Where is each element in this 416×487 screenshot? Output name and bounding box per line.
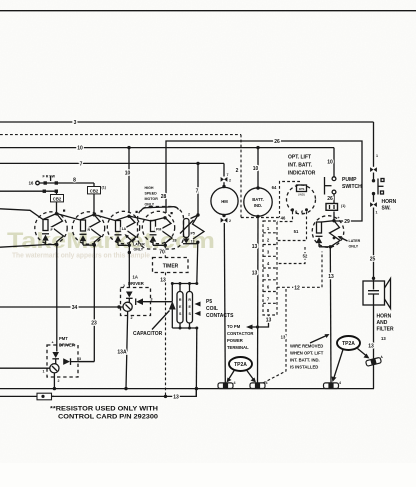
wire 13 res pack to bottom [195,328,198,396]
svg-text:CAPACITOR: CAPACITOR [133,331,163,337]
svg-text:PUMP: PUMP [342,177,357,183]
wire 8-13 ladder to batt ind wire with pointer [268,315,270,323]
svg-text:13: 13 [381,336,386,341]
svg-text:TERMINAL: TERMINAL [227,345,249,350]
wire 12 [277,252,322,288]
F R switch upper pole wire 8 [39,182,94,184]
svg-text:13: 13 [252,244,258,250]
svg-text:INT. BATT. IND.: INT. BATT. IND. [290,358,320,363]
svg-text:4: 4 [266,381,268,385]
svg-text:23: 23 [91,321,97,327]
svg-text:R: R [179,298,182,302]
contactor PM C4 [142,211,176,247]
svg-text:10: 10 [327,160,333,166]
horn connector upper [370,167,377,172]
svg-text:64: 64 [272,185,277,190]
res pack P5 coil contacts [171,282,199,330]
svg-text:2: 2 [229,179,231,183]
svg-text:26: 26 [274,139,280,145]
svg-text:R: R [188,298,191,302]
wire 13 removed (dashed) to lug [262,289,286,384]
svg-text:1: 1 [376,154,378,158]
pump switch [325,177,363,204]
svg-text:BATT.: BATT. [252,197,264,202]
svg-text:70: 70 [159,250,165,256]
svg-text:7: 7 [80,161,83,167]
svg-text:4: 4 [339,381,341,385]
svg-text:DRIVER: DRIVER [128,281,144,286]
svg-text:(IND): (IND) [298,193,305,197]
svg-text:WIRE REMOVED: WIRE REMOVED [290,344,323,349]
wire 10 bus [0,147,334,149]
svg-text:13: 13 [266,318,272,324]
svg-text:12: 12 [294,285,300,291]
svg-text:13: 13 [281,335,286,340]
wire 13 dashed from timer to bottom bus [165,273,167,397]
svg-text:PM: PM [156,228,161,232]
svg-text:7: 7 [196,189,199,195]
svg-text:INT. BATT.: INT. BATT. [288,163,313,169]
wire 25 [373,208,375,282]
terminal lug 3 [324,381,342,388]
wire 46 [277,212,293,222]
svg-text:2: 2 [123,284,125,288]
svg-text:TO PM: TO PM [227,324,241,329]
svg-text:CB2: CB2 [53,197,62,202]
timer TIMER [153,258,189,273]
svg-text:7: 7 [227,173,229,177]
pump switch feed wire 10 [333,148,335,177]
svg-text:10: 10 [77,146,83,152]
wire lug4 to bottom bus corner [373,365,375,389]
svg-text:+: + [52,341,54,345]
svg-text:13: 13 [160,278,166,284]
svg-text:28: 28 [173,239,177,243]
svg-text:F R SW: F R SW [43,175,56,179]
wire 26 loop [166,141,362,221]
dashed outline high speed motor group [138,207,184,250]
wire 13 horn to lug [373,305,375,359]
svg-text:10: 10 [125,171,131,177]
bottom bus lower with jog [0,389,196,397]
battery indicator BATT IND [244,146,272,383]
breaker CB2 right [93,183,95,215]
F R switch lower pole wire [0,190,57,192]
svg-text:25: 25 [370,257,376,263]
svg-text:13: 13 [328,274,334,280]
svg-text:**RESISTOR USED ONLY WITH: **RESISTOR USED ONLY WITH [50,406,158,413]
svg-text:+: + [338,216,340,220]
svg-text:TIMER: TIMER [163,264,179,270]
wire 70 from PM contactor to timer [164,245,166,257]
svg-text:POWER: POWER [227,338,243,343]
svg-text:P5: P5 [206,299,212,305]
svg-text:3: 3 [151,298,153,302]
wire 10 drop to circle C3 [128,148,130,213]
wire 13A emitter of 1A driver to bottom bus [126,316,128,389]
F R switch terminal 16 [36,181,40,185]
svg-text:13: 13 [173,395,179,401]
opt lift battery indicator [287,185,316,215]
brace over PM contactor [141,207,179,212]
svg-text:51: 51 [294,229,299,234]
contactor pump C6 later only [312,216,344,249]
page top border [0,10,416,12]
svg-text:2: 2 [58,379,60,383]
svg-text:CB2: CB2 [90,189,99,194]
bottom bus upper [0,388,374,390]
horn switch [372,179,384,202]
wire 2 dashed drop [241,135,280,218]
svg-text:1PS: 1PS [299,187,305,191]
wire 23 contactor R to PMT driver [78,245,94,361]
wire 7 bus [0,162,224,164]
resistor P5 [180,213,204,244]
svg-text:1: 1 [43,370,45,374]
contactor 1A C3 [107,211,139,247]
svg-text:8: 8 [73,178,76,184]
svg-text:16: 16 [29,181,34,186]
svg-text:3: 3 [74,120,77,126]
svg-text:IND.: IND. [254,203,262,208]
svg-text:1: 1 [376,211,378,215]
wire 52 [277,247,305,264]
svg-text:SW.: SW. [382,206,392,212]
svg-text:13: 13 [191,240,195,244]
svg-text:13A: 13A [117,350,127,356]
contactor R C2 [72,210,104,247]
F R switch lever [50,176,52,181]
svg-text:AND: AND [377,320,388,326]
svg-text:LATER: LATER [349,239,361,243]
contactor F C1 [0,210,67,248]
svg-text:10: 10 [253,166,259,172]
wire 34 [0,306,123,308]
test point TP2A right [332,336,370,382]
svg-text:1A: 1A [133,275,138,280]
svg-text:R: R [88,228,91,232]
coil-top link wire from left edge through contactor circles [0,209,165,221]
svg-text:13: 13 [368,344,374,350]
wire 3 top bus [0,121,374,123]
svg-text:2: 2 [236,168,239,174]
driver 1A [121,245,173,320]
svg-text:COIL: COIL [206,306,218,312]
wire 13 pump contactor to lug [329,247,332,383]
svg-text:2: 2 [188,213,190,217]
svg-text:LATER: LATER [133,243,145,247]
terminal lug 1 [218,381,236,388]
indicator dashed feed 64 [280,182,301,218]
horn chain from wire 3 [373,122,375,167]
resistor control card (footnote) [37,393,52,400]
terminal lug 4 [365,355,384,366]
svg-text:34: 34 [72,305,78,311]
svg-text:26: 26 [327,196,333,202]
wire 51 [277,212,307,241]
terminal lug 2 [250,381,268,388]
svg-text:46: 46 [281,216,286,221]
svg-text:3: 3 [79,357,81,361]
svg-text:INDICATOR: INDICATOR [288,171,316,177]
connector ladder pins 1-8 [263,221,277,315]
wire 2 dashed bus [0,134,241,136]
svg-text:2: 2 [131,316,133,320]
svg-text:MOTOR: MOTOR [145,197,159,201]
svg-text:SPEED: SPEED [145,192,158,196]
svg-text:HORN: HORN [377,314,392,320]
driver PMT [0,245,94,391]
svg-text:HIGH: HIGH [145,186,154,190]
svg-text:ONLY: ONLY [349,245,359,249]
breaker CB2 left [56,191,58,213]
svg-text:OPT. LIFT: OPT. LIFT [288,155,311,161]
capacitor [171,284,173,302]
svg-text:P5: P5 [191,232,195,236]
test point TP2A left [227,357,257,383]
svg-text:52: 52 [303,254,308,259]
svg-text:CONTACTS: CONTACTS [206,313,234,319]
svg-text:ONLY: ONLY [134,248,144,252]
node on wire7 at x198 [196,162,199,165]
F R switch contacts lower [43,190,46,193]
svg-text:HM: HM [221,199,228,204]
svg-text:HORN: HORN [382,199,397,205]
svg-text:SWITCH: SWITCH [342,184,362,190]
svg-text:FILTER: FILTER [377,327,395,333]
wire 7 drop to P5 [197,163,199,215]
horn and filter [363,279,391,309]
node on wire10 at x129 [127,146,130,149]
F R switch contacts upper [44,181,47,184]
svg-text:1A: 1A [122,227,127,231]
svg-text:PMT: PMT [59,336,68,341]
horn connector lower [370,202,377,207]
svg-text:IS INSTALLED: IS INSTALLED [290,365,318,370]
svg-text:28: 28 [161,194,167,200]
svg-text:TP2A: TP2A [234,362,247,368]
svg-text:WHEN OPT. LIFT: WHEN OPT. LIFT [290,351,324,356]
svg-text:13: 13 [252,271,258,277]
breaker CB3 [326,204,338,211]
svg-text:2: 2 [229,219,231,223]
hour meter HM [211,163,238,382]
svg-text:29: 29 [344,219,350,225]
svg-text:CONTROL CARD P/N 292300: CONTROL CARD P/N 292300 [58,414,158,421]
node wire 29 [332,219,335,222]
svg-text:TP2A: TP2A [342,341,355,347]
wire 13 from P5 down to res pack [197,242,198,283]
svg-text:4: 4 [234,381,236,385]
svg-text:CONTACTOR: CONTACTOR [227,331,253,336]
